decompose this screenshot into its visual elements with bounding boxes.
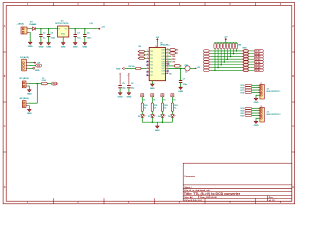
svg-text:D: D [4,186,6,189]
ground C2 [48,42,50,44]
svg-text:100n: 100n [87,38,92,40]
wire W1 pin2 to ground [28,86,29,90]
wire C5 to ground [119,88,121,93]
svg-text:DCD7: DCD7 [255,70,260,72]
wire R20 to J3 [252,110,260,112]
global label D5 [254,63,263,66]
svg-text:DB3: DB3 [162,59,165,61]
ground C5 [119,92,121,94]
capacitor C7 [180,68,182,80]
wire P4 pin1 +5V [28,62,33,64]
svg-text:DB2: DB2 [162,56,165,58]
svg-text:TX4: TX4 [150,65,153,67]
wire U1 VCC filter [168,67,185,69]
resistor R4 [139,57,145,59]
svg-text:R7: R7 [176,53,178,55]
svg-text:R22: R22 [241,115,244,117]
power +5V RN1 [225,41,227,43]
RN1 top rail [215,42,237,44]
svg-text:TX6: TX6 [150,72,153,74]
IC U1 pin numbers [147,49,168,76]
ground C6 [128,92,130,94]
ground C1 [40,42,42,44]
ground U1 [151,83,153,85]
svg-text:A: A [4,25,6,28]
svg-text:C2: C2 [51,32,54,34]
frame zone ticks [3,3,295,204]
svg-text:C4: C4 [87,31,90,34]
resistor array RN2 left [203,50,210,72]
junction C2 [48,28,50,30]
svg-text:D2: D2 [138,116,140,118]
global label D4 [254,61,263,64]
no-connect U1 right pin [168,63,170,65]
svg-text:+ (BUS): + (BUS) [17,23,25,25]
svg-text:GND: GND [46,47,51,49]
ground C3 [74,42,76,44]
svg-text:TxD: TxD [37,65,41,67]
IC U1 body [149,48,165,81]
global label D2 [254,55,263,58]
jumper JP3 [161,94,164,97]
svg-text:22p: 22p [131,88,135,90]
svg-text:RXD: RXD [116,68,121,70]
resistor R6 [168,49,170,51]
resistor R11 [151,103,153,112]
title block text [184,175,275,202]
connector W1 [22,81,28,88]
wire D4 to rail [161,118,163,123]
svg-text:+5V: +5V [89,23,93,25]
resistor R7 [168,52,170,54]
capacitor C2 [48,29,50,35]
svg-text:GND: GND [35,70,40,72]
matrix horizontal wires [211,51,243,70]
svg-text:GND: GND [118,97,123,99]
wire JP2 to R11 [151,97,153,103]
svg-text:TX2: TX2 [150,58,153,60]
svg-text:C5: C5 [122,83,124,85]
svg-text:DB7: DB7 [162,68,165,70]
wire D1 to regulator [35,28,57,30]
svg-text:J2: J2 [260,83,262,85]
title block outline [183,163,292,201]
svg-text:GND: GND [27,113,32,115]
svg-text:C: C [4,125,6,128]
svg-text:0.5A: 0.5A [42,79,47,82]
svg-text:Comments: Comments [184,175,196,178]
net label row TXD [168,55,171,57]
svg-text:1k: 1k [164,108,167,110]
junction rail 2 [162,121,164,123]
sheet frame inner border [6,6,292,202]
svg-text:GN: GN [169,74,172,76]
net label row RXD [168,58,171,60]
svg-text:D5: D5 [168,116,170,118]
resistor R13 [171,103,173,112]
wire R15 to J2 [252,84,260,86]
ground C4 [84,42,86,44]
no-connect U1 pin 5 [147,64,149,66]
svg-text:J3: J3 [260,106,262,108]
ground J2 [255,97,257,99]
frame zone labels [4,3,295,204]
svg-text:1k: 1k [154,108,157,110]
junction W1 [37,83,39,85]
connector P4 [22,59,29,71]
svg-text:Sheet: /: Sheet: / [184,186,192,189]
wire R13 to D5 [171,112,173,115]
global label D1 [254,52,263,55]
capacitor C6 [128,74,130,85]
ground U3 [62,42,64,44]
svg-text:TX1: TX1 [150,55,153,57]
wire F1 to label [47,83,51,85]
svg-text:(FT232RL): (FT232RL) [160,45,170,47]
svg-text:TX5: TX5 [150,68,153,70]
wire C6 to ground [128,88,130,93]
svg-text:GND: GND [178,91,183,93]
resistor array RN3 right [242,50,248,72]
resistor R12 [161,103,163,112]
resistor R5 with input label [141,68,147,70]
ground C7 [180,86,182,88]
connector W2 [22,101,28,108]
wire JP3 to R12 [161,97,163,103]
svg-text:100n: 100n [183,84,188,86]
svg-text:+5V: +5V [224,37,228,39]
svg-text:2: 2 [147,54,148,56]
LED D4 [161,115,166,118]
ground P1 [29,41,31,43]
ground LED rail [156,125,158,127]
ground W2 [28,108,30,110]
resistor R3 [139,54,145,56]
svg-text:D3: D3 [148,116,150,118]
svg-text:+5V: +5V [155,37,159,39]
wire P1 to D1 [30,28,33,30]
wire W1 pin1 [28,83,37,85]
wire bus W1-W2 [36,84,38,104]
diode D1 [32,27,35,30]
svg-text:C6: C6 [131,83,133,85]
svg-text:GND: GND [254,125,259,127]
wire P4 pin3 ground [28,68,33,70]
svg-text:TXD: TXD [172,56,176,58]
svg-text:VBUS: VBUS [52,83,58,85]
svg-text:Id: 1/1: Id: 1/1 [269,200,276,202]
ferrite bead FB1 [185,66,190,71]
capacitor C4 [84,29,86,35]
capacitor C3 [74,29,76,35]
svg-text:DB9: DB9 [162,73,165,75]
svg-text:W1 (BUS): W1 (BUS) [20,78,29,80]
wire rail to ground [156,122,158,126]
wire D2 to rail [141,118,143,123]
wire D5 to rail [171,118,173,123]
svg-text:C7: C7 [183,79,186,81]
svg-text:Rev:: Rev: [269,197,274,199]
svg-text:R5 10k: R5 10k [129,66,136,68]
power +5V P4 [33,62,36,64]
svg-text:GND: GND [28,46,33,48]
svg-text:CTS: CTS [172,62,176,64]
wire JP4 to R13 [171,97,173,103]
svg-text:22p: 22p [122,88,126,90]
svg-text:6: 6 [147,67,148,69]
matrix output labels [248,51,254,70]
LED D3 [151,115,156,118]
wire D3 to rail [151,118,153,123]
wire U3 ground [62,37,64,43]
svg-text:RXD: RXD [172,59,176,61]
svg-text:R18: R18 [241,92,244,94]
svg-text:BUS OUTPUT 1: BUS OUTPUT 1 [267,91,281,93]
wire R22 to J3 [252,114,260,116]
svg-text:DB0: DB0 [162,50,165,52]
connector P1 [21,27,30,34]
svg-text:B: B [4,75,6,78]
svg-text:GND: GND [27,94,32,96]
svg-text:R2: R2 [139,46,141,48]
svg-text:TX: TX [143,100,146,102]
wire R17 to J2 [252,89,260,91]
IC U1 pin stubs [147,50,169,75]
svg-text:TX3: TX3 [150,61,153,63]
LED ground rail [142,121,172,123]
no-connect U1 pin 8 [147,75,149,77]
wire R16 to J2 [252,87,260,89]
LED D2 [141,115,146,118]
svg-text:A: A [292,25,294,28]
LED D5 [171,115,176,118]
svg-text:C1: C1 [43,32,46,34]
sheet frame outer border [3,3,295,204]
global label D3 [254,58,263,61]
svg-text:W2 (BUS): W2 (BUS) [20,98,29,100]
svg-text:+5V: +5V [101,26,105,28]
svg-text:GND: GND [150,88,155,90]
resistor R2 [139,50,145,52]
wire J3 ground [256,118,260,121]
global label TXD [28,65,35,67]
svg-text:1k: 1k [144,108,147,110]
svg-text:TX0: TX0 [150,51,153,53]
svg-text:10u: 10u [77,38,81,40]
svg-text:C: C [292,125,294,128]
capacitor C5 [119,74,121,85]
wire FB1 out [190,67,195,69]
svg-text:1: 1 [147,50,148,52]
wire R19 to J3 [252,107,260,109]
power +5V U1 [156,41,158,48]
svg-text:RN3: RN3 [243,48,247,50]
junction C4 [84,28,86,30]
regulator U3 [58,26,69,37]
wire P1 pin2 to ground [29,32,31,42]
svg-text:D: D [292,186,294,189]
connector J2 [260,84,264,99]
svg-text:DB1: DB1 [162,53,165,55]
jumper JP1 [141,94,144,97]
svg-text:BUS OUTPUT 2: BUS OUTPUT 2 [267,114,281,116]
ground W1 [28,89,30,91]
junction C1 [40,28,42,30]
svg-text:Date: 2025-05-08: Date: 2025-05-08 [200,196,217,199]
svg-text:TX: TX [173,100,176,102]
net label row CTS [168,61,171,63]
svg-text:TX: TX [163,100,166,102]
no-connect U1 pin 7 [147,71,149,73]
global label D7 [254,69,263,72]
junction rail 1 [152,121,154,123]
svg-text:1u: 1u [43,38,46,40]
global label D6 [254,66,263,69]
IC U1 pin names [150,50,165,77]
wire JP1 to R10 [141,97,143,103]
fuse F1 [37,83,41,85]
matrix vertical drops [214,49,237,71]
ground J3 [255,120,257,122]
svg-text:GND: GND [126,97,131,99]
global label VBUS [51,82,57,85]
svg-text:Title: TTL (5->V) to DCD conve: Title: TTL (5->V) to DCD converter [184,192,241,196]
svg-text:1k: 1k [174,108,177,110]
svg-text:TX7: TX7 [150,75,153,77]
svg-text:FB1: FB1 [185,65,189,67]
svg-text:GND: GND [38,47,43,49]
resistor network RN1 [214,43,238,49]
svg-text:Size: A4: Size: A4 [184,196,193,199]
power output +5V arrow [93,28,97,30]
no-connect U1 pin 4 [147,61,149,63]
no-connect U1 right low [167,70,169,72]
resistor R10 [141,103,143,112]
svg-text:R6: R6 [176,50,178,52]
svg-text:GND: GND [61,47,66,49]
svg-text:GND: GND [73,47,78,49]
svg-text:TX: TX [153,100,156,102]
wire U3 output [69,28,93,30]
svg-text:3: 3 [147,57,148,59]
svg-text:L1: L1 [185,72,187,74]
wire J2 ground [256,95,260,98]
junction filter [180,68,182,70]
junction C3 [74,28,76,30]
svg-text:NCP1117ST50: NCP1117ST50 [55,23,69,25]
resistor R9 on 3V3 wire [168,65,174,67]
wire W2 pin2 to ground [28,106,29,110]
global label D0 [254,50,263,53]
wire R10 to D2 [141,112,143,115]
svg-text:P4 (AUX): P4 (AUX) [20,56,29,59]
wire U1 ground [151,81,153,84]
svg-text:GND: GND [82,47,87,49]
svg-text:KiCad E.D.A. 9.0.1: KiCad E.D.A. 9.0.1 [184,199,203,202]
capacitor C1 [40,29,42,35]
svg-text:RN1: RN1 [237,45,242,47]
svg-text:C3: C3 [77,32,80,34]
svg-text:GND: GND [254,102,259,104]
wire W2 pin1 [28,102,37,104]
jumper JP4 [171,94,174,97]
svg-text:DB8: DB8 [162,71,165,73]
jumper JP2 [151,94,154,97]
wire R12 to D4 [161,112,163,115]
ground P4 [33,68,35,70]
svg-text:GND: GND [61,33,66,35]
svg-text:B: B [292,75,294,78]
wire R21 to J3 [252,112,260,114]
wire R11 to D3 [151,112,153,115]
svg-text:20: 20 [155,46,157,48]
svg-text:100n: 100n [51,38,56,40]
svg-text:+5V: +5V [197,67,201,69]
svg-text:1N4448: 1N4448 [29,23,37,26]
wire R18 to J2 [252,91,260,93]
connector J3 [260,107,264,122]
svg-text:GND: GND [155,130,160,132]
